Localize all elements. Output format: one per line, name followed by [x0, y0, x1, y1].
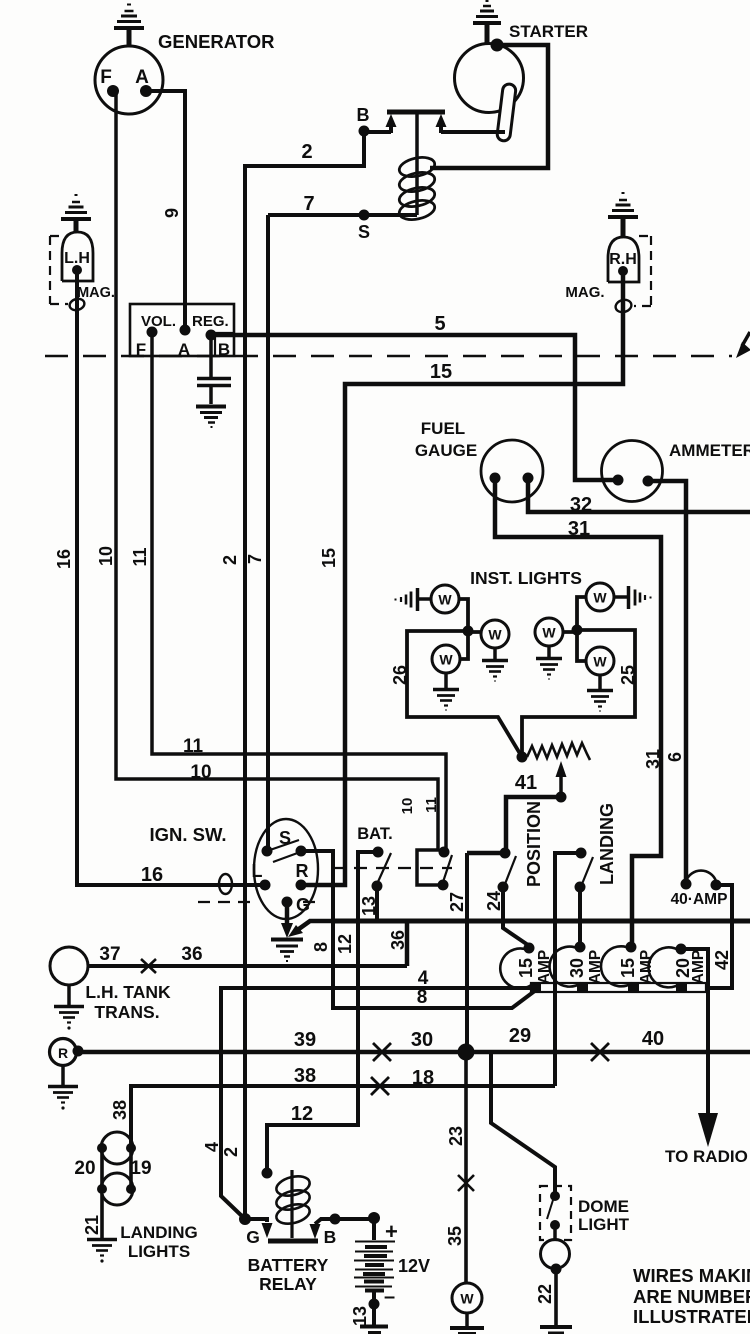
wire 9 (generator A to VOL REG A): [146, 91, 185, 330]
svg-text:GAUGE: GAUGE: [415, 441, 477, 460]
svg-text:S: S: [358, 222, 370, 242]
svg-text:15: 15: [516, 958, 536, 978]
ground sideways right: [614, 586, 651, 609]
svg-text:BATTERY: BATTERY: [248, 1255, 329, 1275]
svg-text:11: 11: [423, 797, 440, 813]
wire plunger to right contact: [441, 130, 505, 134]
dashed linkage at ignition: [198, 901, 320, 903]
to radio arrow: [698, 1113, 718, 1147]
ground R sender: [61, 1066, 65, 1085]
inst lights right loop wiring: [522, 597, 635, 757]
fuse bus bar: [531, 983, 706, 992]
svg-text:6: 6: [665, 752, 685, 762]
svg-text:MAG.: MAG.: [565, 284, 604, 301]
node R sender: [73, 1046, 84, 1057]
svg-text:9: 9: [162, 208, 182, 218]
ground wire diagonal from bus: [296, 921, 333, 931]
wire 15 (RH mag to ignition R): [304, 274, 623, 885]
splice X on 38/18: [371, 1077, 389, 1095]
svg-text:F: F: [100, 67, 112, 88]
fuel gauge: [481, 440, 543, 502]
bat switch lower: [372, 881, 383, 892]
wire 31 (fuel gauge to 15A fuse): [495, 482, 661, 944]
svg-text:11: 11: [130, 547, 150, 566]
svg-text:2: 2: [301, 141, 312, 163]
wire 42 (40A fuse down to radio feed): [708, 885, 732, 988]
svg-text:F: F: [136, 340, 146, 359]
fuse F1 15 AMP: [500, 948, 534, 988]
ignition G contact: [282, 897, 293, 908]
bus tab 3: [628, 982, 639, 993]
svg-text:41: 41: [515, 772, 537, 794]
svg-text:10: 10: [96, 546, 116, 566]
svg-text:2: 2: [221, 1147, 241, 1157]
node rheostat left: [517, 752, 528, 763]
svg-text:–: –: [384, 1286, 395, 1308]
node inst left junction: [463, 626, 474, 637]
svg-text:DOME: DOME: [578, 1197, 629, 1216]
ground landing lights: [87, 1240, 117, 1263]
dashed firewall divider: [45, 355, 732, 358]
wire 41 horizontal to position upper: [467, 851, 505, 856]
node relay coil top: [262, 1168, 273, 1179]
svg-text:23: 23: [446, 1126, 466, 1146]
ignition S contact: [262, 846, 273, 857]
wire 27 (position feed down to junction): [465, 853, 469, 1052]
relay core line: [290, 1170, 293, 1238]
wire 22 dome ground lead: [554, 1269, 558, 1326]
svg-text:W: W: [438, 592, 452, 608]
dome light dashed box: [540, 1186, 571, 1240]
svg-text:LIGHTS: LIGHTS: [128, 1242, 190, 1261]
svg-text:VOL.: VOL.: [141, 313, 176, 330]
RH magneto body: [608, 237, 639, 282]
svg-text:W: W: [439, 652, 453, 668]
wire 36 ground bus: [333, 919, 750, 924]
capacitor on B: [209, 339, 213, 377]
fuse F4 20 AMP: [649, 947, 681, 987]
wire 13 (bat switch to ground bus): [375, 889, 379, 921]
dome switch lever: [547, 1200, 553, 1219]
svg-text:WIRES MAKING: WIRES MAKING: [633, 1265, 750, 1286]
landing switch lower: [575, 882, 586, 893]
bat switch lever: [377, 853, 391, 884]
svg-text:+: +: [385, 1219, 398, 1244]
svg-text:AMP: AMP: [690, 950, 707, 984]
svg-text:A: A: [135, 67, 149, 88]
node relay G junction: [239, 1213, 251, 1225]
bus tab 4: [676, 982, 687, 993]
ground warning lamp: [465, 1313, 469, 1327]
wire 5 (VOL REG B to ammeter): [211, 335, 615, 480]
wire 39/30/29/40 main feed: [78, 1050, 750, 1055]
node ammeter left: [613, 475, 624, 486]
node RH mag terminal: [618, 266, 628, 276]
svg-text:40·AMP: 40·AMP: [671, 891, 728, 908]
svg-text:R.H: R.H: [609, 251, 637, 268]
svg-text:LANDING: LANDING: [597, 803, 617, 885]
starter solenoid plunger: [497, 83, 517, 141]
svg-text:W: W: [542, 625, 556, 641]
shield loop LH mag wire: [68, 297, 85, 312]
field switch upper: [439, 847, 450, 858]
node LH mag terminal: [72, 265, 82, 275]
wire landing feed down: [555, 853, 581, 1086]
svg-text:L.H: L.H: [64, 250, 90, 267]
inst lights lamp R1: [586, 583, 614, 611]
svg-text:2: 2: [220, 555, 240, 565]
inst lights lamp R2: [535, 618, 563, 646]
fuse F2 30 AMP: [550, 947, 581, 987]
node generator A: [140, 85, 152, 97]
rheostat wiper arrow: [559, 776, 563, 797]
wire 16 (LH mag to ignition L): [77, 273, 262, 885]
node main junction: [458, 1044, 475, 1061]
bat switch upper: [373, 847, 384, 858]
svg-text:15: 15: [430, 361, 452, 383]
ground tank: [67, 985, 71, 1005]
svg-text:31: 31: [568, 518, 590, 540]
wire 11 (VOL REG F to field switch upper): [152, 336, 446, 849]
svg-text:10: 10: [190, 762, 211, 783]
solenoid core line: [415, 112, 419, 215]
relay contact bar: [268, 1239, 318, 1244]
svg-text:15: 15: [319, 548, 339, 568]
wire 32 (fuel gauge to right edge): [528, 482, 750, 512]
svg-text:37: 37: [99, 944, 120, 965]
svg-text:12: 12: [291, 1103, 313, 1125]
svg-text:31: 31: [643, 749, 663, 769]
LH tank transmitter: [50, 947, 88, 985]
svg-text:G: G: [296, 895, 310, 915]
svg-text:TRANS.: TRANS.: [94, 1002, 159, 1022]
wire 21 landing lights ground lead: [100, 1194, 104, 1238]
RH mag dashed shield box: [634, 236, 651, 306]
svg-text:38: 38: [110, 1100, 130, 1120]
svg-text:4: 4: [418, 968, 429, 989]
svg-text:42: 42: [712, 950, 732, 970]
svg-text:A: A: [178, 340, 190, 359]
svg-text:B: B: [324, 1227, 337, 1247]
ground RH mag: [608, 193, 638, 237]
svg-text:40: 40: [642, 1028, 664, 1050]
ground starter: [473, 1, 501, 44]
node lamp dots: [97, 1143, 107, 1153]
ground LH mag: [61, 195, 91, 232]
svg-text:30: 30: [567, 958, 587, 978]
fuse F3 15 AMP: [601, 946, 632, 986]
ignition levers: [267, 840, 303, 862]
node relay B junction: [330, 1214, 341, 1225]
splice X on 23/35: [458, 1175, 474, 1191]
svg-text:27: 27: [447, 892, 467, 912]
svg-text:W: W: [460, 1291, 474, 1307]
svg-text:INST. LIGHTS: INST. LIGHTS: [470, 568, 582, 588]
landing switch upper: [576, 848, 587, 859]
svg-text:MAG.: MAG.: [77, 285, 115, 301]
svg-text:38: 38: [294, 1065, 316, 1087]
splice X on 29/40: [591, 1043, 609, 1061]
svg-text:16: 16: [141, 864, 163, 886]
svg-text:32: 32: [570, 494, 592, 516]
ground dome: [540, 1325, 572, 1329]
svg-text:R: R: [296, 861, 309, 881]
svg-text:35: 35: [445, 1226, 465, 1246]
bus tab 2: [577, 982, 588, 993]
svg-text:W: W: [593, 654, 607, 670]
node VOL REG A: [180, 325, 191, 336]
svg-text:W: W: [488, 627, 502, 643]
field switch lever: [443, 855, 452, 882]
svg-text:39: 39: [294, 1029, 316, 1051]
inst lights lamp L2: [481, 620, 509, 648]
svg-text:12: 12: [335, 934, 355, 954]
svg-text:POSITION: POSITION: [524, 801, 544, 887]
svg-text:ILLUSTRATED: ILLUSTRATED: [633, 1306, 750, 1327]
ignition L contact: [260, 880, 271, 891]
svg-text:REG.: REG.: [192, 313, 229, 330]
svg-text:AMP: AMP: [536, 950, 553, 984]
solenoid contact arrow right: [439, 126, 443, 133]
wire 7 (solenoid S to ignition switch S): [268, 215, 417, 848]
svg-text:B: B: [218, 340, 230, 359]
svg-text:24: 24: [484, 891, 504, 911]
ignition ground stem arrow: [285, 905, 290, 925]
node wiper: [556, 792, 567, 803]
VOL REG box: [130, 304, 234, 356]
dome switch lower: [550, 1220, 560, 1230]
battery relay coil: [274, 1173, 311, 1227]
svg-text:L: L: [252, 861, 263, 881]
wire dome feed: [491, 1052, 555, 1193]
svg-text:26: 26: [390, 665, 410, 685]
wire 12 (bat switch to relay coil): [267, 852, 378, 1172]
node inst right junction: [572, 625, 583, 636]
ground lamp R2: [547, 646, 551, 657]
svg-text:36: 36: [181, 944, 202, 965]
svg-text:13: 13: [350, 1306, 370, 1326]
landing lamp 2: [101, 1173, 133, 1205]
inst lights lamp R3: [586, 647, 614, 675]
svg-text:12V: 12V: [398, 1256, 430, 1276]
ground sideways left: [396, 588, 432, 611]
wire 2 (starter B down to battery relay): [245, 135, 364, 1216]
node starter terminal: [491, 39, 504, 52]
wire relay to battery: [335, 1217, 374, 1221]
wire landing feed across bus: [553, 981, 557, 994]
svg-text:LIGHT: LIGHT: [578, 1215, 630, 1234]
node ammeter right: [643, 476, 654, 487]
svg-text:W: W: [593, 590, 607, 606]
svg-text:ARE NUMBERED: ARE NUMBERED: [633, 1286, 750, 1307]
svg-text:AMP: AMP: [587, 950, 604, 984]
svg-text:19: 19: [130, 1158, 151, 1179]
wire 41 (wiper to position switch): [506, 797, 561, 850]
svg-text:IGN. SW.: IGN. SW.: [149, 824, 226, 845]
ground capacitor: [196, 407, 226, 428]
dashed gang linkage: [332, 867, 452, 869]
svg-text:22: 22: [535, 1284, 555, 1304]
tank sender line 37/36: [88, 964, 407, 968]
position switch upper: [500, 848, 511, 859]
svg-text:30: 30: [411, 1029, 433, 1051]
svg-text:29: 29: [509, 1025, 531, 1047]
ground generator: [114, 5, 144, 47]
dome switch upper: [550, 1191, 560, 1201]
svg-text:AMP: AMP: [638, 950, 655, 984]
fuse 40 AMP arc: [686, 871, 716, 881]
svg-text:LANDING: LANDING: [120, 1223, 197, 1242]
inst lights lamp L1: [431, 585, 459, 613]
svg-text:13: 13: [359, 896, 379, 916]
shield loop on wire 16: [219, 874, 232, 894]
svg-text:STARTER: STARTER: [509, 22, 588, 41]
ignition upper right contact: [296, 846, 307, 857]
svg-text:TO RADIO: TO RADIO: [665, 1147, 748, 1166]
ignition R contact: [296, 880, 307, 891]
node battery plus: [368, 1212, 380, 1224]
solenoid contact arrow left: [389, 126, 393, 133]
ground lamp R3: [598, 675, 602, 689]
svg-text:8: 8: [311, 942, 331, 952]
warning lamp W: [452, 1283, 482, 1313]
landing lamp 1: [101, 1132, 133, 1164]
generator G1: [95, 46, 163, 114]
svg-text:R: R: [58, 1045, 68, 1061]
starter solenoid coil: [398, 154, 437, 222]
svg-text:18: 18: [412, 1067, 434, 1089]
starter motor: [455, 44, 524, 113]
svg-text:RELAY: RELAY: [259, 1274, 317, 1294]
wire 36 riser: [405, 921, 410, 966]
svg-text:AMMETER: AMMETER: [669, 441, 750, 460]
landing switch lever: [582, 857, 593, 884]
solenoid contact bar: [387, 110, 445, 115]
svg-text:B: B: [357, 105, 370, 125]
svg-text:11: 11: [183, 736, 204, 757]
ground ignition switch: [271, 940, 303, 962]
ground lamp L2: [493, 648, 497, 659]
svg-text:7: 7: [245, 554, 265, 564]
svg-text:36: 36: [388, 930, 408, 950]
svg-text:FUEL: FUEL: [421, 419, 465, 438]
ground lamp L3: [444, 673, 448, 688]
svg-text:7: 7: [303, 193, 314, 215]
wire 10 (generator F to field switch lower): [116, 94, 440, 885]
node fuel gauge right: [523, 473, 534, 484]
VOL REG B terminal box: [215, 333, 234, 356]
ammeter: [602, 441, 663, 502]
node generator F: [107, 85, 119, 97]
LH magneto body: [62, 232, 93, 281]
wire starter A to solenoid frame: [430, 45, 548, 168]
R fuel sender circle: [50, 1039, 77, 1066]
wire 24 (position switch to 15A fuse): [503, 890, 528, 945]
shield loop RH mag wire: [614, 298, 633, 314]
ignition switch body: [254, 819, 318, 919]
svg-text:15: 15: [618, 958, 638, 978]
svg-text:21: 21: [82, 1215, 102, 1235]
wire 20A fuse to radio: [681, 949, 708, 1115]
rheostat R1 zigzag: [527, 743, 590, 760]
node VOL REG B: [206, 330, 217, 341]
wire landing to 30A fuse: [578, 890, 582, 944]
svg-text:5: 5: [434, 313, 445, 335]
svg-text:25: 25: [618, 665, 638, 685]
svg-text:BAT.: BAT.: [357, 825, 392, 843]
wire 8 (ign to fuse bus): [301, 851, 536, 1008]
divider end arrow: [742, 332, 750, 346]
svg-text:4: 4: [202, 1142, 222, 1152]
svg-text:8: 8: [417, 987, 428, 1008]
wire 38/18 line: [131, 1086, 555, 1148]
node fuel gauge left: [490, 473, 501, 484]
svg-text:L.H. TANK: L.H. TANK: [85, 982, 171, 1002]
wire 6 (ammeter to 40A fuse): [648, 481, 686, 881]
node dome lamp bottom: [551, 1264, 562, 1275]
battery B1 12V: [372, 1221, 376, 1240]
svg-text:G: G: [246, 1227, 260, 1247]
node VOL REG F: [147, 327, 158, 338]
inst lights left loop wiring: [407, 599, 522, 757]
ground battery: [360, 1325, 388, 1329]
inst lights lamp L3: [432, 645, 460, 673]
svg-text:S: S: [279, 828, 291, 848]
bus tab 1: [530, 982, 541, 993]
relay B lead arrow: [315, 1219, 335, 1224]
splice X on 37/36: [141, 959, 156, 973]
relay G lead arrow: [245, 1217, 267, 1222]
node B starter: [359, 126, 370, 137]
svg-text:10: 10: [399, 798, 416, 815]
wire 4 (fuse bus to relay): [221, 988, 533, 1219]
wire 23/35 (junction down to warning lamp): [464, 1052, 468, 1283]
svg-text:16: 16: [54, 549, 74, 569]
position switch lever: [505, 856, 516, 884]
position switch lower: [498, 882, 509, 893]
wire B terminal to left contact: [364, 131, 391, 133]
svg-text:20: 20: [74, 1158, 95, 1179]
dome lamp: [553, 1228, 557, 1240]
splice X on 39/30: [373, 1043, 391, 1061]
node S starter: [359, 210, 370, 221]
node battery minus: [369, 1299, 380, 1310]
landing lamp side wires: [102, 1148, 131, 1189]
LH mag dashed shield box: [50, 236, 68, 304]
field switch lower: [438, 880, 449, 891]
svg-text:GENERATOR: GENERATOR: [158, 31, 275, 52]
